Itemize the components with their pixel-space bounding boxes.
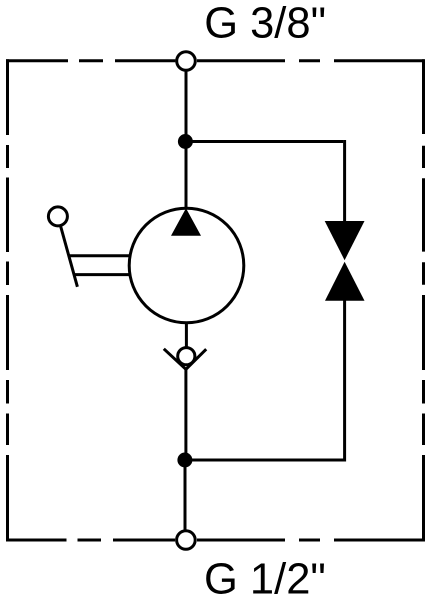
enclosure boundary right border (dashed)	[422, 59, 425, 541]
wire node A to pump inlet	[185, 142, 188, 213]
enclosure boundary bottom border (dashed)	[6, 539, 425, 542]
check valve ball circle	[178, 348, 195, 365]
enclosure boundary top border (dashed)	[6, 59, 425, 62]
wire node B to bottom port	[184, 460, 187, 532]
wire check valve to node B	[184, 369, 187, 460]
lever bottom rail	[74, 273, 130, 276]
top port circle	[177, 52, 196, 71]
wire bottom corner to node B (horizontal)	[185, 459, 346, 462]
valve V1 upper triangle (down)	[325, 221, 365, 260]
wire node A to right branch (horizontal)	[185, 140, 343, 143]
svg-text:G 3/8": G 3/8"	[204, 0, 326, 47]
bottom port circle	[177, 531, 196, 550]
lever handle shaft	[58, 216, 78, 286]
check valve seat (V) left arm	[164, 349, 186, 370]
wire valve V1 to bottom corner	[343, 300, 346, 462]
wire right branch down to valve V1	[343, 140, 346, 222]
enclosure boundary left border (dashed)	[6, 59, 9, 541]
wire pump outlet to check valve	[185, 323, 188, 348]
node B junction dot	[177, 453, 192, 468]
node A junction dot	[178, 134, 193, 149]
lever knob	[48, 207, 67, 226]
lever top rail	[69, 254, 130, 257]
wire top port to node A	[185, 70, 188, 142]
pump flow triangle (up)	[171, 208, 201, 236]
valve V1 lower triangle (up)	[325, 262, 365, 301]
pump circle P1	[129, 208, 244, 323]
check valve seat (V) right arm	[186, 349, 206, 369]
svg-text:G 1/2": G 1/2"	[204, 555, 326, 600]
